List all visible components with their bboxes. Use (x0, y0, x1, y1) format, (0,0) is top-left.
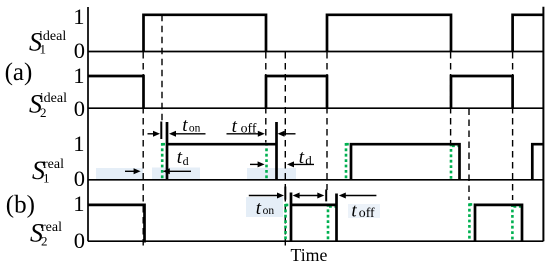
green dotted rise instant S2 real pulse3 (469, 203, 475, 241)
dashed line x=469 gate-on instant 4 (468, 109, 470, 201)
svg-text:d: d (305, 152, 312, 167)
label t_d 1 (177, 147, 189, 168)
shadow under t_d label 1 (152, 168, 200, 180)
green dotted fall instant S2 real pulse2 (328, 204, 337, 241)
svg-text:on: on (189, 122, 201, 134)
svg-text:2: 2 (40, 105, 47, 120)
tick gate-off 3 (325, 190, 327, 202)
svg-text:ideal: ideal (40, 91, 67, 106)
svg-text:off: off (359, 205, 375, 220)
label t_off 1 (232, 116, 257, 137)
label t_on 1 (182, 115, 200, 136)
dimension t_on 2 arrows (249, 193, 324, 199)
dashed line x=327 ideal instant 3 (326, 52, 328, 190)
dimension t_d 2 arrows (250, 161, 314, 167)
label t_d 2 (299, 147, 313, 168)
dashed line x=285 gate-on instant 2 (284, 52, 286, 250)
dashed line x=451 ideal instant 4 (450, 52, 452, 143)
dimension t_off 1 arrows (227, 131, 296, 137)
label S1 real (32, 156, 64, 186)
green dotted fall instant S1 real pulse1 (265, 143, 268, 180)
waveform S1 ideal (144, 15, 544, 52)
axis baseline track3 (S1 real zero line) (88, 179, 543, 181)
tick gate-on 2 (284, 187, 286, 200)
shadow under t_on label 2 (246, 197, 283, 217)
shadow under t_d arrow 2 (247, 168, 296, 180)
green dotted fall instant S2 real pulse3 (512, 204, 521, 241)
shadow under t_d arrow left (96, 168, 143, 179)
label S2 real (30, 218, 62, 248)
axis baseline track4 (S2 real zero line) (88, 240, 543, 242)
svg-text:1: 1 (73, 63, 84, 88)
left axis vertical (87, 7, 89, 241)
dashed line x=162 gate-on instant 1 (161, 15, 163, 122)
label t_on 2 (256, 198, 275, 219)
dimension t_on 1 arrows (148, 131, 206, 137)
dashed line x=143.5 ideal instant 1 (142, 52, 144, 250)
svg-text:1: 1 (43, 171, 50, 186)
svg-text:1: 1 (73, 4, 84, 29)
waveform S1 real (167, 122, 543, 180)
svg-text:1: 1 (73, 191, 84, 216)
svg-text:0: 0 (74, 38, 85, 63)
green dotted fall instant S1 real pulse2 (451, 144, 460, 180)
waveform S2 real (88, 193, 522, 243)
svg-text:Time: Time (291, 245, 328, 265)
svg-text:d: d (183, 154, 189, 168)
axis baseline track1 (S1 ideal zero line) (88, 51, 543, 53)
tick gate-on 1 (160, 122, 162, 140)
svg-text:2: 2 (41, 234, 48, 249)
svg-text:t: t (256, 198, 262, 219)
green dotted rise instant S2 real pulse2 (286, 204, 292, 241)
svg-text:1: 1 (40, 42, 47, 57)
axis baseline track2 (S2 ideal zero line) (88, 107, 543, 109)
svg-text:1: 1 (73, 131, 84, 156)
svg-text:0: 0 (74, 96, 85, 121)
svg-text:off: off (241, 120, 257, 135)
svg-text:t: t (299, 147, 305, 168)
label S1 ideal (29, 28, 66, 57)
label S2 ideal (29, 90, 67, 121)
svg-text:t: t (182, 115, 188, 136)
svg-text:on: on (263, 205, 275, 217)
dimension t_d 1 arrows (125, 168, 191, 174)
green dotted rise instant S1 real pulse1 (162, 143, 167, 180)
svg-text:(a): (a) (5, 59, 33, 86)
svg-text:(b): (b) (6, 192, 35, 219)
shadow under t_off label 2 (348, 204, 380, 218)
dashed line x=513 ideal instant 5 (512, 52, 514, 200)
green dotted rise instant S1 real pulse2 (346, 143, 351, 180)
svg-text:0: 0 (74, 228, 85, 253)
svg-text:t: t (351, 201, 357, 222)
right border vertical (542, 7, 544, 242)
svg-text:t: t (232, 116, 238, 137)
waveform S2 ideal (88, 76, 513, 108)
svg-text:0: 0 (74, 166, 85, 191)
dimension t_off 2 arrows (339, 193, 377, 199)
label t_off 2 (351, 201, 375, 222)
dashed line x=266 ideal instant 2 (265, 52, 267, 143)
